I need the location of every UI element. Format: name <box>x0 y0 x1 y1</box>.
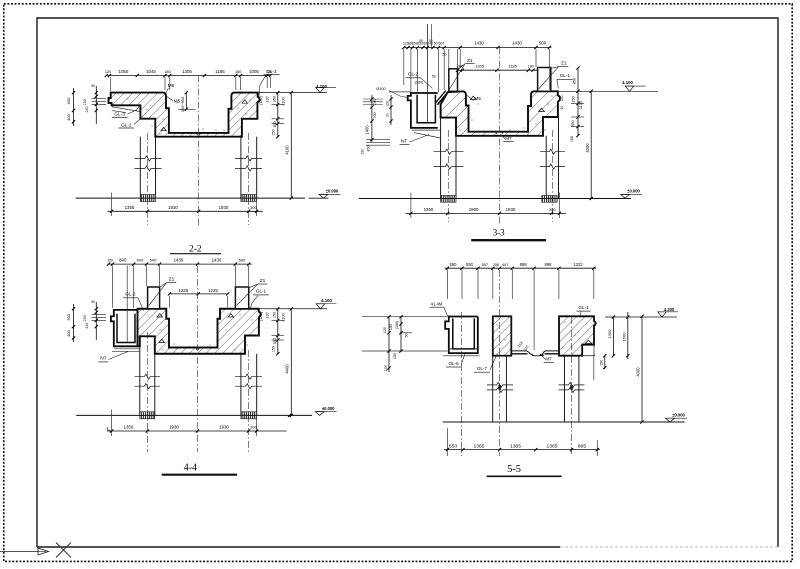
3-3 left dimension stack <box>371 95 373 142</box>
svg-text:120: 120 <box>386 101 390 107</box>
section 3-3 group <box>359 24 658 240</box>
4-4 slope triangle slab <box>159 339 165 342</box>
3-3 right column footing hatch <box>542 196 557 203</box>
2-2 top dimension line <box>106 75 270 77</box>
svg-text:150: 150 <box>273 312 277 318</box>
4-4 ground elevation marker <box>315 412 324 416</box>
2-2 bottom dimension line <box>111 193 113 217</box>
svg-text:4-4: 4-4 <box>184 463 197 474</box>
svg-text:300: 300 <box>250 425 257 430</box>
svg-text:GL-7: GL-7 <box>477 366 488 371</box>
svg-text:50: 50 <box>434 42 438 46</box>
2-2 right column centerline <box>248 133 250 225</box>
5-5 right column break marks <box>559 382 585 387</box>
3-3 right column break marks <box>540 149 565 154</box>
5-5 dim 150 below <box>604 356 606 369</box>
svg-text:Z1: Z1 <box>561 61 567 67</box>
svg-text:500: 500 <box>150 257 157 262</box>
svg-text:50: 50 <box>429 39 433 43</box>
svg-text:550: 550 <box>450 262 458 267</box>
svg-text:1365: 1365 <box>510 443 521 449</box>
2-2 vertical dim 350~950 <box>185 93 187 110</box>
svg-text:GL-6: GL-6 <box>448 361 459 366</box>
svg-text:1225: 1225 <box>179 288 189 293</box>
4-4 speckle dots <box>147 314 148 315</box>
svg-text:600: 600 <box>66 97 71 104</box>
svg-text:1350: 1350 <box>424 207 434 212</box>
2-2 center axis centerline <box>198 76 200 229</box>
svg-text:1305: 1305 <box>182 69 192 74</box>
svg-text:4000: 4000 <box>585 143 590 153</box>
svg-text:120: 120 <box>266 312 270 318</box>
4-4 left column footing hatch <box>140 412 155 419</box>
section 5-5 group <box>362 262 687 477</box>
2-2 left column break marks <box>135 156 162 161</box>
svg-text:20: 20 <box>386 113 390 117</box>
2-2 channel floor joint <box>197 133 201 135</box>
svg-text:GL-2: GL-2 <box>125 292 136 297</box>
svg-text:±0.000: ±0.000 <box>326 189 339 194</box>
svg-text:1900: 1900 <box>469 207 479 212</box>
5-5 gutter box inner <box>453 318 475 349</box>
5-5 speckle dots <box>496 324 497 325</box>
3-3 tall left extension line <box>427 24 429 122</box>
3-3 screed slope band <box>437 92 447 105</box>
svg-text:±0.000: ±0.000 <box>627 189 640 194</box>
5-5 right block hatched <box>559 316 596 355</box>
2-2 top elevation marker 4.100 <box>258 92 327 94</box>
svg-text:(100): (100) <box>415 80 425 84</box>
svg-text:120: 120 <box>105 70 111 74</box>
3-3 hatched concrete body <box>441 91 560 136</box>
4-4 overall height dim 4400 <box>290 309 292 416</box>
svg-text:150: 150 <box>599 360 603 366</box>
5-5 ground elevation marker <box>666 418 675 422</box>
4-4 right column break marks <box>235 374 262 379</box>
2-2 overall height dim 4100 <box>290 93 292 199</box>
svg-text:NT: NT <box>100 356 106 362</box>
svg-text:1430: 1430 <box>512 41 522 46</box>
svg-text:350~950: 350~950 <box>180 96 185 112</box>
svg-text:550: 550 <box>273 338 277 344</box>
4-4 gutter box outer <box>111 310 138 346</box>
2-2 soffit slope lines <box>112 107 140 112</box>
3-3 parapet Z1 left <box>449 69 458 92</box>
4-4 ground line <box>76 414 312 416</box>
svg-text:1350: 1350 <box>124 425 134 430</box>
4-4 slope triangle left wall <box>157 314 163 317</box>
2-2 hatched concrete body <box>109 93 260 137</box>
svg-text:4.100: 4.100 <box>321 298 332 303</box>
svg-text:180: 180 <box>164 70 170 74</box>
svg-text:M5: M5 <box>474 96 481 102</box>
4-4 right column footing hatch <box>241 412 257 419</box>
svg-text:NT: NT <box>401 138 407 144</box>
svg-text:4400: 4400 <box>285 364 290 374</box>
5-5 right column centerline <box>571 317 573 456</box>
svg-text:350: 350 <box>273 121 277 127</box>
4-4 parapet Z1 left <box>148 287 160 309</box>
2-2 left dimension stack <box>92 97 107 99</box>
svg-text:4000: 4000 <box>636 367 641 377</box>
4-4 top dimension line <box>109 263 252 265</box>
5-5 drip hooks <box>532 354 541 356</box>
2-2 right dim stack <box>277 93 279 137</box>
svg-text:180: 180 <box>457 65 463 69</box>
2-2 left column footing hatch <box>140 195 155 202</box>
5-5 slope triangle in right block <box>585 340 592 343</box>
3-3 top elevation marker 4.100 <box>558 90 658 92</box>
5-5 left dimension stack <box>400 317 402 351</box>
svg-text:Z1: Z1 <box>467 58 473 64</box>
svg-text:GL-3: GL-3 <box>266 69 277 74</box>
svg-text:GL-2: GL-2 <box>121 122 132 127</box>
svg-text:500: 500 <box>239 257 246 262</box>
svg-text:1300: 1300 <box>607 329 612 339</box>
4-4 extension lines <box>112 266 114 309</box>
svg-text:1500: 1500 <box>621 332 626 342</box>
svg-text:557: 557 <box>481 262 488 267</box>
corner arrow symbol <box>0 551 38 553</box>
svg-text:1930: 1930 <box>168 205 178 210</box>
svg-text:Z1: Z1 <box>169 277 175 283</box>
svg-text:120: 120 <box>266 96 270 102</box>
2-2 left column centerline <box>146 133 148 225</box>
4-4 gutter box inner <box>117 314 135 343</box>
4-4 right column centerline <box>248 350 250 452</box>
svg-text:1365: 1365 <box>547 443 558 449</box>
5-5 left witness lines <box>362 316 448 318</box>
svg-text:50: 50 <box>91 84 95 88</box>
5-5 top dimension line <box>445 267 597 269</box>
svg-text:GL-1: GL-1 <box>256 289 267 294</box>
3-3 extension lines top <box>403 49 405 85</box>
svg-text:50: 50 <box>432 74 436 78</box>
svg-text:(180): (180) <box>259 96 263 105</box>
svg-text:850: 850 <box>572 78 576 84</box>
svg-text:4.100: 4.100 <box>622 80 633 85</box>
3-3 left column break marks <box>434 149 464 154</box>
svg-text:Z1: Z1 <box>260 278 266 284</box>
svg-text:4.200: 4.200 <box>664 307 675 312</box>
5-5 overall height dim 4000 <box>641 316 643 422</box>
svg-text:100: 100 <box>384 365 388 371</box>
3-3 left column <box>440 118 442 199</box>
svg-text:700: 700 <box>373 112 377 118</box>
5-5 left column centerline <box>499 270 501 456</box>
5-5 right dim 1300 <box>612 317 614 356</box>
svg-text:2-2: 2-2 <box>189 244 202 254</box>
svg-text:41.4M: 41.4M <box>431 301 443 306</box>
4-4 hatched concrete body <box>138 309 261 354</box>
svg-text:150: 150 <box>107 258 113 262</box>
4-4 top elevation marker 4.100 <box>259 308 327 310</box>
svg-text:258: 258 <box>493 263 499 267</box>
svg-text:1930: 1930 <box>506 207 516 212</box>
4-4 right dim stack <box>277 309 279 354</box>
svg-text:550: 550 <box>466 262 474 267</box>
4-4 channel dimension line 1225x2 <box>170 293 228 295</box>
svg-text:150: 150 <box>571 96 575 102</box>
svg-text:Ø100: Ø100 <box>376 87 385 91</box>
4-4 slope triangle right wall <box>228 314 234 317</box>
svg-text:60: 60 <box>560 106 564 110</box>
5-5 top elevation marker 4.200 <box>605 316 677 318</box>
5-5 middle pier hatched <box>493 316 512 355</box>
3-3 gutter soffit lines <box>412 129 441 131</box>
2-2 slope triangle left <box>161 127 166 130</box>
2-2 ground elevation marker <box>319 194 328 198</box>
4-4 left dimension stack <box>92 313 107 315</box>
svg-text:1930: 1930 <box>169 425 179 430</box>
svg-text:4100: 4100 <box>285 145 290 155</box>
svg-text:M7: M7 <box>505 136 512 141</box>
svg-text:GL-1: GL-1 <box>560 73 571 78</box>
3-3 channel floor joint <box>496 132 504 135</box>
5-5 floor lines with drip <box>511 351 559 356</box>
svg-text:150: 150 <box>83 315 87 321</box>
4-4 left column break marks <box>135 374 161 379</box>
svg-text:150: 150 <box>389 324 393 330</box>
svg-text:1225: 1225 <box>208 288 218 293</box>
5-5 gutter box outer <box>445 317 478 354</box>
svg-text:5-5: 5-5 <box>507 464 521 475</box>
3-3 bottom dimension line <box>410 193 412 219</box>
svg-text:3-3: 3-3 <box>493 228 505 238</box>
svg-text:865: 865 <box>578 443 586 449</box>
svg-text:4.100: 4.100 <box>316 84 327 89</box>
svg-text:1430: 1430 <box>474 41 484 46</box>
svg-text:600: 600 <box>137 257 144 262</box>
svg-text:150: 150 <box>570 136 574 142</box>
5-5 right dim 1500 <box>627 312 629 359</box>
3-3 parapet dimension line <box>458 69 538 71</box>
svg-text:1050: 1050 <box>119 69 129 74</box>
2-2 right column <box>240 137 242 198</box>
svg-text:700: 700 <box>373 99 377 105</box>
svg-text:±0.000: ±0.000 <box>672 412 685 417</box>
svg-text:150: 150 <box>393 353 397 359</box>
svg-text:600: 600 <box>66 313 71 320</box>
svg-text:400: 400 <box>66 113 71 120</box>
svg-text:467: 467 <box>502 263 508 267</box>
2-2 extension lines <box>110 77 112 91</box>
3-3 top main dimension line <box>404 47 552 49</box>
svg-text:898: 898 <box>545 262 553 267</box>
svg-text:1005: 1005 <box>249 69 259 74</box>
svg-text:240: 240 <box>85 323 89 329</box>
3-3 slope triangle right <box>539 108 545 111</box>
3-3 gutter box inner <box>417 95 435 123</box>
4-4 right column <box>240 354 242 416</box>
svg-text:1100: 1100 <box>578 100 583 109</box>
svg-text:M7: M7 <box>545 356 552 361</box>
svg-text:150: 150 <box>271 129 275 135</box>
svg-text:150: 150 <box>83 99 87 105</box>
svg-text:1185: 1185 <box>508 64 517 69</box>
2-2 left column <box>139 137 141 198</box>
3-3 parapet Z1 right <box>538 68 551 92</box>
4-4 bottom dimension line <box>111 410 113 437</box>
4-4 center axis centerline <box>197 266 199 452</box>
corner X mark <box>56 543 71 558</box>
3-3 ground line <box>359 198 631 200</box>
section 2-2 group <box>66 69 341 255</box>
svg-text:50: 50 <box>91 300 95 304</box>
5-5 right column <box>564 356 566 422</box>
5-5 right block notch lines <box>582 355 595 357</box>
svg-text:1430: 1430 <box>174 257 184 262</box>
5-5 right edge extension <box>596 440 598 456</box>
svg-text:800: 800 <box>119 257 127 262</box>
svg-text:1930: 1930 <box>219 425 229 430</box>
svg-text:450: 450 <box>367 146 371 152</box>
svg-text:300: 300 <box>549 207 556 212</box>
3-3 overall height dim 4000 <box>590 91 592 198</box>
2-2 ground line <box>76 197 305 199</box>
5-5 extension lines <box>446 270 448 300</box>
3-3 ground elevation marker <box>621 194 630 198</box>
svg-text:1185: 1185 <box>215 69 225 74</box>
3-3 center axis centerline <box>499 48 501 226</box>
svg-text:120: 120 <box>560 96 564 102</box>
svg-text:180: 180 <box>235 70 241 74</box>
5-5 left column <box>492 356 494 422</box>
2-2 slope triangle right <box>242 100 247 103</box>
svg-text:1045: 1045 <box>146 69 156 74</box>
svg-text:1930: 1930 <box>219 205 229 210</box>
svg-text:(180): (180) <box>395 321 399 329</box>
svg-text:1332: 1332 <box>573 262 583 267</box>
svg-text:500: 500 <box>539 41 547 46</box>
svg-text:1365: 1365 <box>474 443 485 449</box>
svg-text:±0.000: ±0.000 <box>322 406 335 411</box>
svg-text:300: 300 <box>250 205 257 210</box>
5-5 ground line <box>443 421 685 423</box>
3-3 slope triangle left <box>471 96 477 99</box>
2-2 concrete speckle dots <box>127 98 128 99</box>
2-2 right column break marks <box>235 156 262 161</box>
5-5 left column break marks <box>487 382 513 387</box>
4-4 parapet Z1 right <box>235 287 248 309</box>
svg-text:1350: 1350 <box>125 205 135 210</box>
svg-text:180: 180 <box>528 65 534 69</box>
svg-text:50: 50 <box>419 39 423 43</box>
5-5 gutter centerline <box>461 312 463 456</box>
svg-text:150: 150 <box>271 346 275 352</box>
svg-text:550: 550 <box>571 120 575 126</box>
3-3 left column centerline <box>447 130 449 222</box>
4-4 gutter lower lines <box>112 350 140 352</box>
2-2 right column footing hatch <box>241 195 257 202</box>
5-5 bottom dimension line <box>446 428 448 456</box>
3-3 right column <box>545 136 547 199</box>
svg-text:(180): (180) <box>259 312 263 321</box>
svg-text:400: 400 <box>66 329 71 336</box>
svg-text:M6: M6 <box>168 83 175 89</box>
3-3 right column centerline <box>551 130 553 222</box>
3-3 right dim line 850/150/550 <box>577 68 579 136</box>
svg-text:898: 898 <box>520 262 528 267</box>
svg-text:GL-1: GL-1 <box>578 305 589 310</box>
section 4-4 group <box>66 257 337 474</box>
svg-text:1305: 1305 <box>475 64 485 69</box>
4-4 left column <box>139 336 141 415</box>
3-3 gutter box outer <box>408 93 438 128</box>
svg-text:1400: 1400 <box>364 125 369 135</box>
svg-text:240: 240 <box>85 107 89 113</box>
svg-text:230: 230 <box>361 149 365 155</box>
3-3 speckle dots <box>459 129 460 130</box>
4-4 left column centerline <box>146 332 148 452</box>
svg-text:250: 250 <box>273 96 277 102</box>
svg-text:50: 50 <box>405 334 409 338</box>
3-3 left column footing hatch <box>441 196 456 203</box>
svg-text:500: 500 <box>438 42 444 46</box>
4-4 channel floor joint <box>196 348 200 350</box>
svg-text:120: 120 <box>383 327 387 333</box>
3-3 label level hook <box>389 91 411 93</box>
svg-text:550: 550 <box>449 443 457 449</box>
svg-text:1430: 1430 <box>212 257 222 262</box>
svg-text:GL-2: GL-2 <box>408 72 419 77</box>
